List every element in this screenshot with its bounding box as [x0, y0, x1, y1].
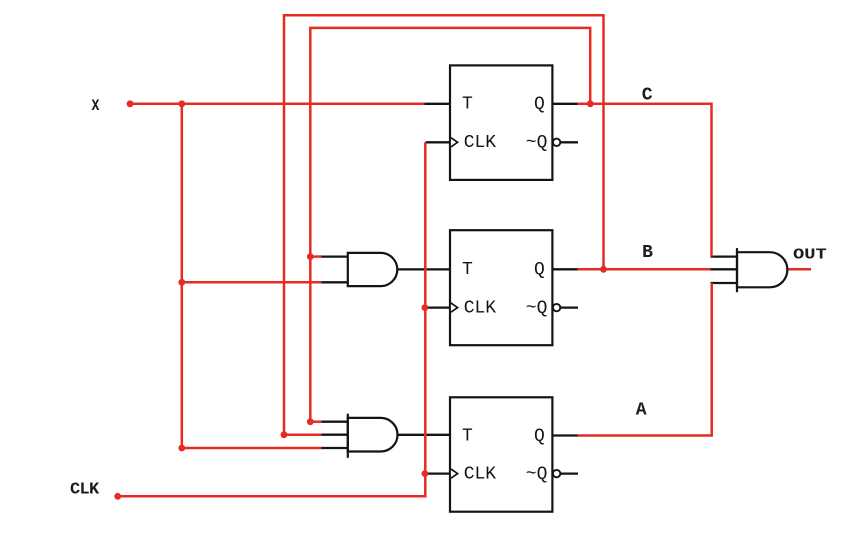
svg-text:Q: Q: [534, 95, 545, 115]
svg-text:~Q: ~Q: [526, 464, 548, 484]
svg-text:C: C: [642, 86, 653, 106]
svg-text:CLK: CLK: [70, 481, 100, 500]
svg-text:CLK: CLK: [464, 133, 497, 153]
svg-text:T: T: [462, 260, 473, 280]
svg-text:~Q: ~Q: [526, 133, 548, 153]
svg-text:T: T: [462, 95, 473, 115]
svg-text:Q: Q: [534, 260, 545, 280]
svg-text:x: x: [91, 95, 99, 117]
svg-text:T: T: [462, 426, 473, 446]
svg-text:Q: Q: [534, 426, 545, 446]
svg-text:CLK: CLK: [464, 464, 497, 484]
svg-text:A: A: [636, 400, 647, 420]
svg-text:B: B: [642, 243, 653, 263]
svg-text:~Q: ~Q: [526, 298, 548, 318]
svg-text:CLK: CLK: [464, 298, 497, 318]
svg-text:OUT: OUT: [793, 247, 827, 264]
